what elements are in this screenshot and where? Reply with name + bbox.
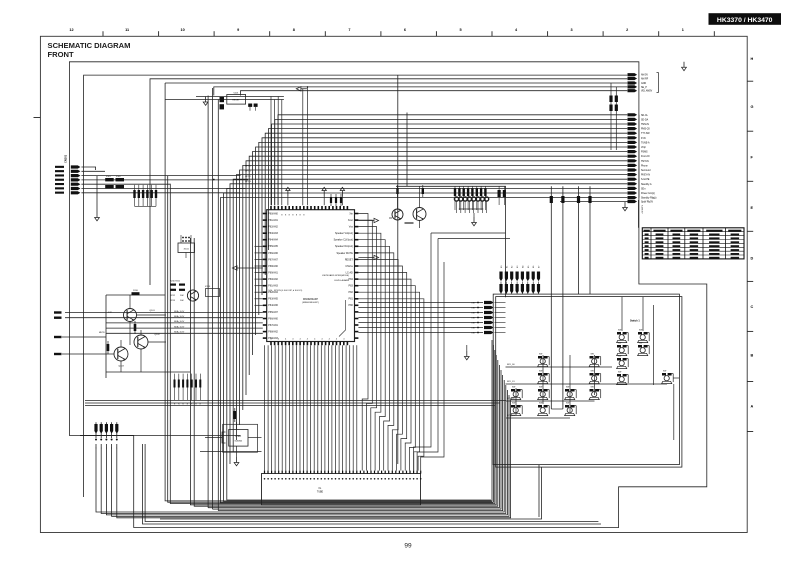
ground G2 [203,97,208,106]
resistor bank RA301 labels [174,404,202,406]
wires I2C bus to U1 [54,311,263,333]
ground mid below U1 [464,345,469,360]
IC U301 side bracket [222,432,226,443]
wire vertical pair x551 [551,186,563,409]
resistor bank RA101 [133,185,157,206]
svg-text:SDA_5.0V: SDA_5.0V [174,315,185,318]
svg-text:Phone: Phone [641,165,648,167]
svg-text:KEY_S0: KEY_S0 [507,364,515,366]
svg-text:PSMS: PSMS [641,152,648,154]
net flags group 2 right [628,113,638,199]
svg-text:9: 9 [237,28,239,32]
svg-text:CN101: CN101 [64,154,68,163]
svg-text:K4: K4 [522,266,524,268]
svg-text:H: H [751,57,754,61]
wire flag column vertical [638,115,640,198]
wire fan U1 bottom pins down [265,345,357,470]
connector CN2 pin ticks [264,471,421,474]
svg-text:Speaker DA(out): Speaker DA(out) [335,245,353,248]
net flag stack labels [471,303,476,335]
svg-text:Power Grn(p): Power Grn(p) [641,192,655,195]
svg-text:TMS-IN: TMS-IN [641,124,649,126]
svg-text:P81: P81 [349,298,354,301]
svg-text:P68/AN0: P68/AN0 [268,265,278,268]
IC U1 inner text block [322,274,349,282]
net flag 2b last [560,200,653,204]
reset IC U201 [227,93,246,105]
svg-text:P65/AN5: P65/AN5 [268,245,278,248]
wire bottom bus from CN102 [96,380,511,518]
switch matrix wiring rows [506,367,668,418]
capacitor C201 pair [220,97,225,109]
svg-text:Switch 1: Switch 1 [630,320,640,323]
svg-text:TTY-SW: TTY-SW [641,133,650,135]
svg-text:TUBE: TUBE [317,491,324,493]
svg-text:P80: P80 [349,304,354,307]
junction dot CN101 wire [213,179,215,181]
svg-text:K1: K1 [506,266,508,268]
svg-text:1: 1 [116,448,117,450]
svg-text:P68/AN2: P68/AN2 [268,331,278,334]
svg-text:SW: SW [618,356,621,358]
svg-text:Speaker Vol(out): Speaker Vol(out) [335,232,353,235]
wire matrix box inner [496,297,682,468]
wires Q401 Q402 [389,185,424,228]
IC U1 left pin stubs [255,246,263,305]
wire bus1 line 4 [214,87,628,96]
capacitor C202 [248,104,257,111]
svg-text:10: 10 [180,28,184,32]
svg-text:Q103: Q103 [118,366,124,368]
svg-text:SDn: SDn [641,188,646,190]
svg-text:HK3370 / HK3470: HK3370 / HK3470 [717,17,773,24]
svg-text:PKEY-IN: PKEY-IN [641,175,650,177]
crystal X101 dots [182,237,190,242]
svg-text:SD-DA: SD-DA [641,118,649,121]
table rows [642,232,744,255]
svg-text:SW: SW [618,330,621,332]
svg-text:AM 5V: AM 5V [641,74,648,77]
svg-text:SW: SW [539,371,542,373]
svg-text:Speaker CLK(out): Speaker CLK(out) [334,239,353,242]
svg-text:2: 2 [626,28,628,32]
switch SW5 [617,356,629,369]
wire matrix box stub [160,465,542,519]
svg-text:X101: X101 [184,249,190,251]
wire horizontals into box [431,233,510,239]
svg-text:P61/AN3: P61/AN3 [268,285,278,288]
svg-text:P61/AN1: P61/AN1 [268,219,278,222]
transistor Q401 [413,208,426,221]
wire bus1 line 2 [150,79,627,285]
IC U1 pin name text right [334,212,354,307]
net arrow right of U1 a [358,218,378,222]
resistor R601 R602 vertical pair [609,83,618,150]
wire loop B [84,75,628,497]
svg-text:D: D [751,256,754,260]
svg-text:Speaker MUTE: Speaker MUTE [336,252,353,255]
svg-text:KEY: KEY [471,318,476,320]
ground stub on top boundary [682,62,687,71]
wires IC top feed from reset row [271,97,282,206]
table columns [651,228,726,259]
svg-text:Standby Rfg(p): Standby Rfg(p) [641,197,657,200]
svg-text:IC201: IC201 [205,286,211,288]
switch SW9 [538,371,550,384]
svg-text:K6: K6 [533,266,535,268]
labels above flag row [501,266,541,268]
resistor R110 [132,290,140,295]
svg-text:KEY: KEY [471,308,476,310]
bracket group 1 [657,73,659,93]
svg-text:P83: P83 [349,285,354,288]
connector CN2 label [317,488,324,493]
table function list frame [642,228,744,259]
net arrow left top [296,87,307,91]
switch SW2 [638,330,650,343]
svg-text:7: 7 [348,28,350,32]
svg-text:P64/AN6: P64/AN6 [268,304,278,307]
resistor R402 pair [498,186,507,205]
IC U301 body [229,430,248,447]
svg-text:Front-IN: Front-IN [641,155,650,158]
wire under resistor bank [85,401,506,406]
svg-text:S-GATE: S-GATE [641,178,650,181]
transistor Q102 [134,334,160,349]
svg-text:KEY_S1: KEY_S1 [507,381,515,383]
wire matrix box outer [493,294,679,465]
wire under U301 to CN2 [200,451,262,453]
crystal X101 body [178,243,195,253]
capacitor row above U1 right [330,194,342,206]
connector CN2 FL tube body [262,474,421,505]
IC U1 center label [302,298,319,304]
svg-text:P65/AN7: P65/AN7 [268,311,278,314]
svg-text:P-IN: P-IN [641,138,646,140]
wire vertical x397 long [397,75,399,464]
svg-text:VDL AM5V: VDL AM5V [641,90,653,93]
svg-text:P63/AN3: P63/AN3 [268,232,278,235]
svg-text:1: 1 [101,448,102,450]
svg-text:(M30624FGLFP): (M30624FGLFP) [302,302,319,304]
ground below CN101 [95,176,100,221]
svg-text:S-DIN 5V: S-DIN 5V [641,205,643,214]
net flag stack KEY [477,301,505,334]
wire vertical pair x578 [577,186,592,294]
svg-text:Q102: Q102 [154,334,160,336]
svg-text:1: 1 [111,448,112,450]
net arrow right of U1 b [358,255,378,259]
switch SW18 [565,403,577,416]
svg-text:RESET: RESET [232,100,240,102]
model badge HK3370 / HK3470 [709,13,782,25]
svg-text:CNVss: CNVss [345,265,353,268]
IC U1 top pin pads [270,206,348,210]
svg-text:S-80845: S-80845 [235,441,243,443]
svg-text:SW: SW [539,403,542,405]
IC U1 pin name text left [268,212,278,340]
svg-text:A: A [751,405,754,409]
svg-text:P82: P82 [349,291,354,294]
switch SW17 [538,403,550,416]
wire box around transistors [106,295,165,378]
svg-text:RESET: RESET [345,258,354,261]
connector CN102 stubs [94,422,118,440]
wire left vertical bundle B [190,238,497,506]
svg-text:R210 R211: R210 R211 [170,281,181,283]
transistor Q103 [114,347,128,368]
svg-text:P66/AN0: P66/AN0 [268,317,278,320]
connector CN2 pin dots [264,478,422,480]
switch SW7 [538,354,550,367]
svg-text:OPT 0: OPT 0 [245,166,252,168]
svg-text:P66/AN6: P66/AN6 [268,252,278,255]
svg-text:SW: SW [663,371,666,373]
net flags row down A [499,272,540,295]
wire outer boundary loop [69,62,706,528]
switch SW3 [617,343,629,356]
page number 99 [404,543,412,550]
svg-text:KEY: KEY [471,328,476,330]
svg-text:Surround: Surround [641,169,651,172]
text cluster bus notes [245,166,252,184]
svg-text:LEVEL ALARM: LEVEL ALARM [334,279,349,282]
svg-text:Q101: Q101 [149,310,155,312]
svg-text:Xout: Xout [348,219,353,222]
svg-text:AM RF: AM RF [641,78,649,81]
svg-text:C: C [751,305,754,309]
svg-text:R213: R213 [170,300,176,302]
svg-text:KEY: KEY [471,323,476,325]
frame grid tick marks right [747,81,753,431]
title FRONT [48,50,75,59]
svg-text:SW: SW [591,354,594,356]
frame grid tick marks top [103,31,714,36]
svg-text:P63/AN5: P63/AN5 [268,298,278,301]
svg-text:PMS-CK: PMS-CK [641,129,650,131]
svg-text:3: 3 [571,28,573,32]
switch SW16 [511,403,523,416]
resistor R111 vertical [134,321,137,334]
svg-text:P62/AN2: P62/AN2 [268,226,278,229]
svg-text:12: 12 [69,28,73,32]
resistor R112 vertical [107,341,110,354]
IC U1 M30620 body [267,210,355,342]
switch SW8 [589,354,601,367]
svg-text:K0: K0 [501,266,503,268]
I2C wire labels [174,310,185,334]
svg-text:SW: SW [591,371,594,373]
wire fan U1 right pins to CN2 [358,214,424,471]
diode array D401 circles [454,197,488,201]
svg-text:K2: K2 [512,266,514,268]
net flags row down B [499,284,540,294]
svg-text:SW: SW [566,387,569,389]
switch SW15 [589,387,601,400]
svg-text:KEY_S2: KEY_S2 [507,398,515,400]
net labels group 1 [641,74,653,93]
net flags group 1 right [628,73,638,92]
svg-text:OPT 3: OPT 3 [245,181,252,183]
ground under diode array [472,213,477,226]
IC U1 inner config text [268,290,302,292]
wire flag column to table [639,200,643,228]
svg-text:SW: SW [566,403,569,405]
diode array D401 resistors [454,186,487,210]
svg-text:KEYBOARD SPKR(MODE): KEYBOARD SPKR(MODE) [322,274,349,277]
wires transistor cluster [106,295,190,372]
svg-text:1: 1 [106,448,107,450]
resistor bank RA301 [174,374,202,400]
capacitor C301 vertical [234,408,237,422]
power arrow U1 top 1 [286,187,290,205]
svg-text:R212: R212 [170,295,176,297]
svg-text:SW: SW [591,387,594,389]
cluster labels left of U1 [170,281,211,289]
svg-text:Spdif Rly5V: Spdif Rly5V [641,202,653,204]
ground under U301 [234,446,239,466]
connector CN101 pins [55,165,80,194]
svg-text:SW: SW [512,387,515,389]
svg-text:M30620SAFP: M30620SAFP [303,298,318,301]
svg-text:SW: SW [539,354,542,356]
wire bus1 line 3 [165,82,627,84]
switch matrix row labels [507,364,515,417]
svg-text:SDA_5.0V: SDA_5.0V [174,331,185,334]
wire under diode array [457,201,487,213]
svg-text:Standby A: Standby A [641,183,652,186]
svg-text:P64/AN4: P64/AN4 [268,239,278,242]
resistor pair on x551 [550,196,565,203]
svg-text:SW: SW [639,330,642,332]
title SCHEMATIC DIAGRAM [48,41,131,50]
wire inner boundary double line left [143,444,602,524]
svg-text:P60/AN2: P60/AN2 [268,278,278,281]
frame grid numbers top [69,28,683,32]
ground mid top-right [623,202,628,211]
svg-text:SW: SW [512,403,515,405]
switch SW12 [511,387,523,400]
table cell text [644,230,742,259]
transistor Q402 [392,209,403,220]
connector CN102 text [96,448,118,450]
svg-text:5: 5 [459,28,461,32]
svg-text:IC301: IC301 [235,436,242,438]
svg-text:K3: K3 [517,266,519,268]
wires IC top feed from bus1 [303,86,309,205]
svg-text:11: 11 [125,28,129,32]
box component left of U1 [206,289,220,297]
svg-text:K7: K7 [539,266,541,268]
power arrow U1 top 2 [322,187,326,205]
svg-text:P60/AN0: P60/AN0 [268,212,278,215]
switch matrix label Switch 1 [630,320,640,323]
svg-text:G: G [751,105,754,109]
svg-text:K5: K5 [528,266,530,268]
switch SW4 [638,343,650,356]
svg-text:SDA_5.0V: SDA_5.0V [174,325,185,328]
svg-text:MUTE: MUTE [99,332,105,334]
svg-text:10K: 10K [180,300,184,302]
crystal X101 wires [181,235,191,258]
switch SW14 [565,387,577,400]
svg-text:1: 1 [682,28,684,32]
switch SW10 [589,371,601,384]
IC U301 outer box [223,424,258,452]
svg-text:B: B [751,354,754,358]
svg-text:SDA_5.0V: SDA_5.0V [174,320,185,323]
label near Q101 [99,332,105,334]
svg-text:OPT 2: OPT 2 [245,176,252,178]
svg-text:P67/AN7: P67/AN7 [268,258,278,261]
IC U1 top inner pin numbers [281,215,305,217]
transistor Q101 [108,309,155,322]
frame tick left margin [34,117,41,119]
switch SW6 [617,372,629,385]
svg-text:P69/AN1: P69/AN1 [268,271,278,274]
wires U301 [205,422,262,438]
IC U1 inner bevel [339,300,346,337]
connector CN101 label [64,154,68,163]
svg-text:SW: SW [539,387,542,389]
svg-text:FRONT: FRONT [48,50,75,59]
wires from CN101 [81,167,248,193]
wire box frame right [396,186,506,297]
wire CN102 horizontal [80,434,241,436]
svg-text:LC-AD: LC-AD [346,271,353,274]
svg-text:TUNE-A: TUNE-A [641,141,650,144]
svg-text:8: 8 [293,28,295,32]
svg-text:SW: SW [618,372,621,374]
svg-text:6: 6 [404,28,406,32]
wire bus1 line 5 [241,91,628,96]
cluster resistors left of U1 [170,284,185,303]
wire mid verticals to bottom bus [208,365,503,511]
capacitor pair R101 R102 [105,176,124,188]
svg-text:1: 1 [96,448,97,450]
wire bus2 staircase [220,115,627,503]
switch SW13 [538,387,550,400]
switch matrix wiring cols [516,297,679,440]
wire U1 key scan pins to key flags [358,303,483,333]
IC U1 bottom pin pads [270,342,348,346]
svg-text:SE_P: SE_P [641,87,647,89]
svg-text:SD-CL: SD-CL [641,115,649,117]
svg-text:P67/AN1: P67/AN1 [268,324,278,327]
svg-text:GND: GND [641,83,646,85]
power arrow U1 top 3 [340,187,344,205]
net arrow left of U1 [232,266,262,270]
wire vertical x407 [406,113,408,187]
left edge wires to transistors [54,336,114,355]
IC U1 right pin pads [355,213,359,339]
switch SW1 [617,330,629,343]
svg-text:Vrtpl: Vrtpl [641,146,646,149]
transistor Q201 [187,290,198,301]
svg-text:KEY_S3: KEY_S3 [507,415,515,417]
svg-text:KEY: KEY [471,303,476,305]
svg-text:99: 99 [404,543,412,550]
svg-text:TMT-IN: TMT-IN [641,161,649,163]
frame grid letters right [751,57,754,408]
svg-text:SW: SW [618,343,621,345]
net labels group 2 [641,115,657,200]
wire CN2 last pin staircase [414,233,444,471]
IC U1 bottom inner pin numbers [270,339,345,341]
wire reset net [165,97,284,100]
page frame border [40,36,747,532]
svg-text:KEY: KEY [471,333,476,335]
